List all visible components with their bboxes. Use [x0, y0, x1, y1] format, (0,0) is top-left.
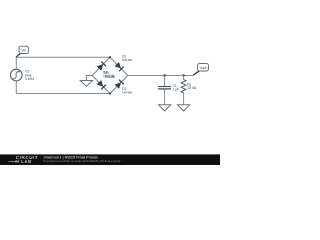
- bridge edge upper-left: [92, 57, 110, 75]
- ground (bridge left corner): [80, 81, 92, 87]
- capacitor C1: [158, 76, 171, 105]
- ground (below C1): [159, 105, 171, 111]
- wire bridge left corner to ground: [86, 76, 92, 81]
- diode D2 (lower-right arm, points to right corner): [114, 80, 123, 89]
- node C1 junction: [163, 74, 165, 76]
- diode D3 (lower-left arm, points to bottom corner): [97, 80, 106, 89]
- svg-text:1N4148: 1N4148: [122, 90, 132, 94]
- label V2 / sine / 1 kHz: [25, 69, 34, 81]
- svg-text:LAB: LAB: [21, 159, 32, 164]
- node top corner junction: [109, 56, 111, 58]
- wire left vertical below V2: [15, 80, 17, 93]
- svg-text:http://www.circuitlab.com/circ: http://www.circuitlab.com/circuit/4v5k93…: [44, 159, 121, 163]
- ground (below RL): [178, 105, 190, 111]
- wire bottom (V2 to bridge bottom corner): [16, 93, 110, 95]
- wire top (Vin node to bridge top corner): [16, 56, 110, 58]
- label D2 / 1N4148: [122, 87, 132, 94]
- diode D1 (upper-right arm, points to right corner): [114, 62, 123, 71]
- net flag Vout: [193, 64, 209, 76]
- wire left vertical above V2: [15, 57, 17, 69]
- label C1 / 1 uF: [172, 84, 179, 92]
- node RL junction: [182, 74, 184, 76]
- bridge edge lower-right: [110, 76, 128, 94]
- resistor RL: [181, 76, 186, 105]
- svg-text:Vin: Vin: [21, 49, 26, 53]
- wire output (bridge right corner to Vout): [128, 75, 194, 77]
- label D1 / 1N4148: [122, 54, 132, 62]
- net flag Vin: [16, 46, 29, 58]
- svg-text:1N4148: 1N4148: [104, 75, 115, 79]
- diode D4 (upper-left arm, points to top corner): [97, 62, 106, 71]
- svg-text:Vout: Vout: [200, 66, 207, 70]
- label RL / 25 kOhm: [187, 83, 196, 91]
- voltage source V2: [10, 69, 22, 81]
- svg-text:1N4148: 1N4148: [122, 58, 132, 62]
- node bottom corner junction: [109, 92, 111, 94]
- svg-text:25 kΩ: 25 kΩ: [187, 86, 196, 90]
- svg-text:1 kHz: 1 kHz: [25, 77, 34, 81]
- bridge edge lower-left: [92, 76, 110, 94]
- svg-text:1 µF: 1 µF: [172, 88, 179, 92]
- CircuitLab logo: [9, 155, 39, 164]
- labels D4 / D3 overlapping inside bridge: [103, 70, 115, 79]
- bridge edge upper-right: [110, 57, 128, 75]
- watermark bar: [0, 154, 220, 165]
